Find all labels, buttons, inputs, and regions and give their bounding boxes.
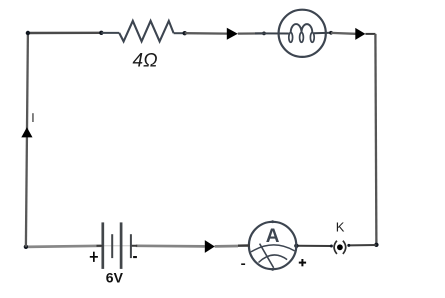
node dot before lamp bbox=[262, 32, 266, 36]
lamp right lead bbox=[314, 32, 331, 34]
battery plate 3 long bbox=[120, 222, 123, 269]
ammeter scale arc upper bbox=[251, 245, 295, 252]
battery plate 2 short bbox=[111, 234, 113, 258]
wire key to ammeter bbox=[296, 245, 331, 247]
key plug dot bbox=[337, 244, 343, 250]
wire dark segment before bottom arrow bbox=[199, 245, 206, 247]
current arrow top-middle bbox=[227, 28, 238, 40]
key right parenthesis bbox=[343, 241, 346, 254]
lamp L1 circle bbox=[279, 10, 326, 57]
wire corner to key bbox=[349, 244, 377, 246]
svg-text:K: K bbox=[336, 220, 345, 235]
battery plate 1 long bbox=[101, 222, 104, 269]
wire lamp to arrow bbox=[331, 32, 356, 35]
node dot right of key bbox=[347, 244, 350, 247]
node dot key side bbox=[330, 245, 333, 248]
wire battery to arrow bbox=[136, 244, 205, 247]
ammeter A1 circle bbox=[249, 222, 296, 269]
svg-text:4Ω: 4Ω bbox=[133, 51, 158, 72]
node dot bottom-right corner bbox=[374, 243, 378, 247]
node dot bottom-left corner bbox=[24, 245, 28, 249]
svg-text:A: A bbox=[266, 226, 280, 247]
battery plate 4 short bbox=[130, 234, 132, 258]
current arrow top-right bbox=[355, 28, 365, 40]
key left parenthesis bbox=[334, 241, 337, 254]
svg-text:6V: 6V bbox=[106, 270, 124, 286]
wire resistor to arrow bbox=[185, 32, 227, 35]
resistor R1 zigzag bbox=[119, 21, 173, 42]
wire arrow to lamp bbox=[238, 32, 264, 34]
ammeter plus label bbox=[299, 259, 306, 266]
lamp filament loop 2 bbox=[300, 33, 304, 43]
lamp filament loop 1 bbox=[289, 33, 293, 43]
ammeter bottom tick bbox=[271, 268, 274, 271]
wire right side vertical bbox=[375, 34, 376, 245]
current arrow bottom bbox=[205, 240, 215, 253]
node dot at resistor left lead bbox=[99, 31, 103, 35]
lamp left lead bbox=[255, 32, 289, 34]
battery plus label bbox=[90, 252, 98, 262]
battery left stub bbox=[97, 245, 103, 247]
battery right stub bbox=[131, 245, 137, 247]
node dot top-left corner bbox=[26, 31, 30, 35]
current arrow left side up bbox=[21, 127, 32, 137]
battery minus label bbox=[133, 256, 137, 258]
ammeter minus label bbox=[241, 263, 245, 265]
wire top-left to resistor bbox=[28, 32, 102, 35]
wire arrow to top-right corner bbox=[365, 33, 375, 35]
lamp filament arch 1 bbox=[291, 24, 302, 32]
node dot after lamp bbox=[329, 31, 333, 35]
wire left side vertical bbox=[26, 33, 28, 247]
wire ammeter to arrow bbox=[215, 245, 238, 248]
resistor R1 left lead bbox=[101, 32, 119, 34]
ammeter top tick bbox=[271, 220, 274, 223]
ammeter left lead bbox=[238, 244, 250, 247]
current label I bbox=[32, 113, 34, 122]
wire bottom-left to battery bbox=[26, 246, 102, 247]
lamp filament arch 2 bbox=[302, 24, 313, 32]
ammeter needle bbox=[260, 244, 274, 268]
ammeter scale arc lower bbox=[259, 255, 288, 263]
node dot at resistor right lead bbox=[183, 31, 187, 35]
node dot ammeter right terminal bbox=[294, 244, 298, 248]
lamp filament loop 3 bbox=[310, 33, 314, 43]
battery faint inner line bbox=[103, 245, 130, 247]
resistor R1 right lead bbox=[174, 32, 185, 34]
